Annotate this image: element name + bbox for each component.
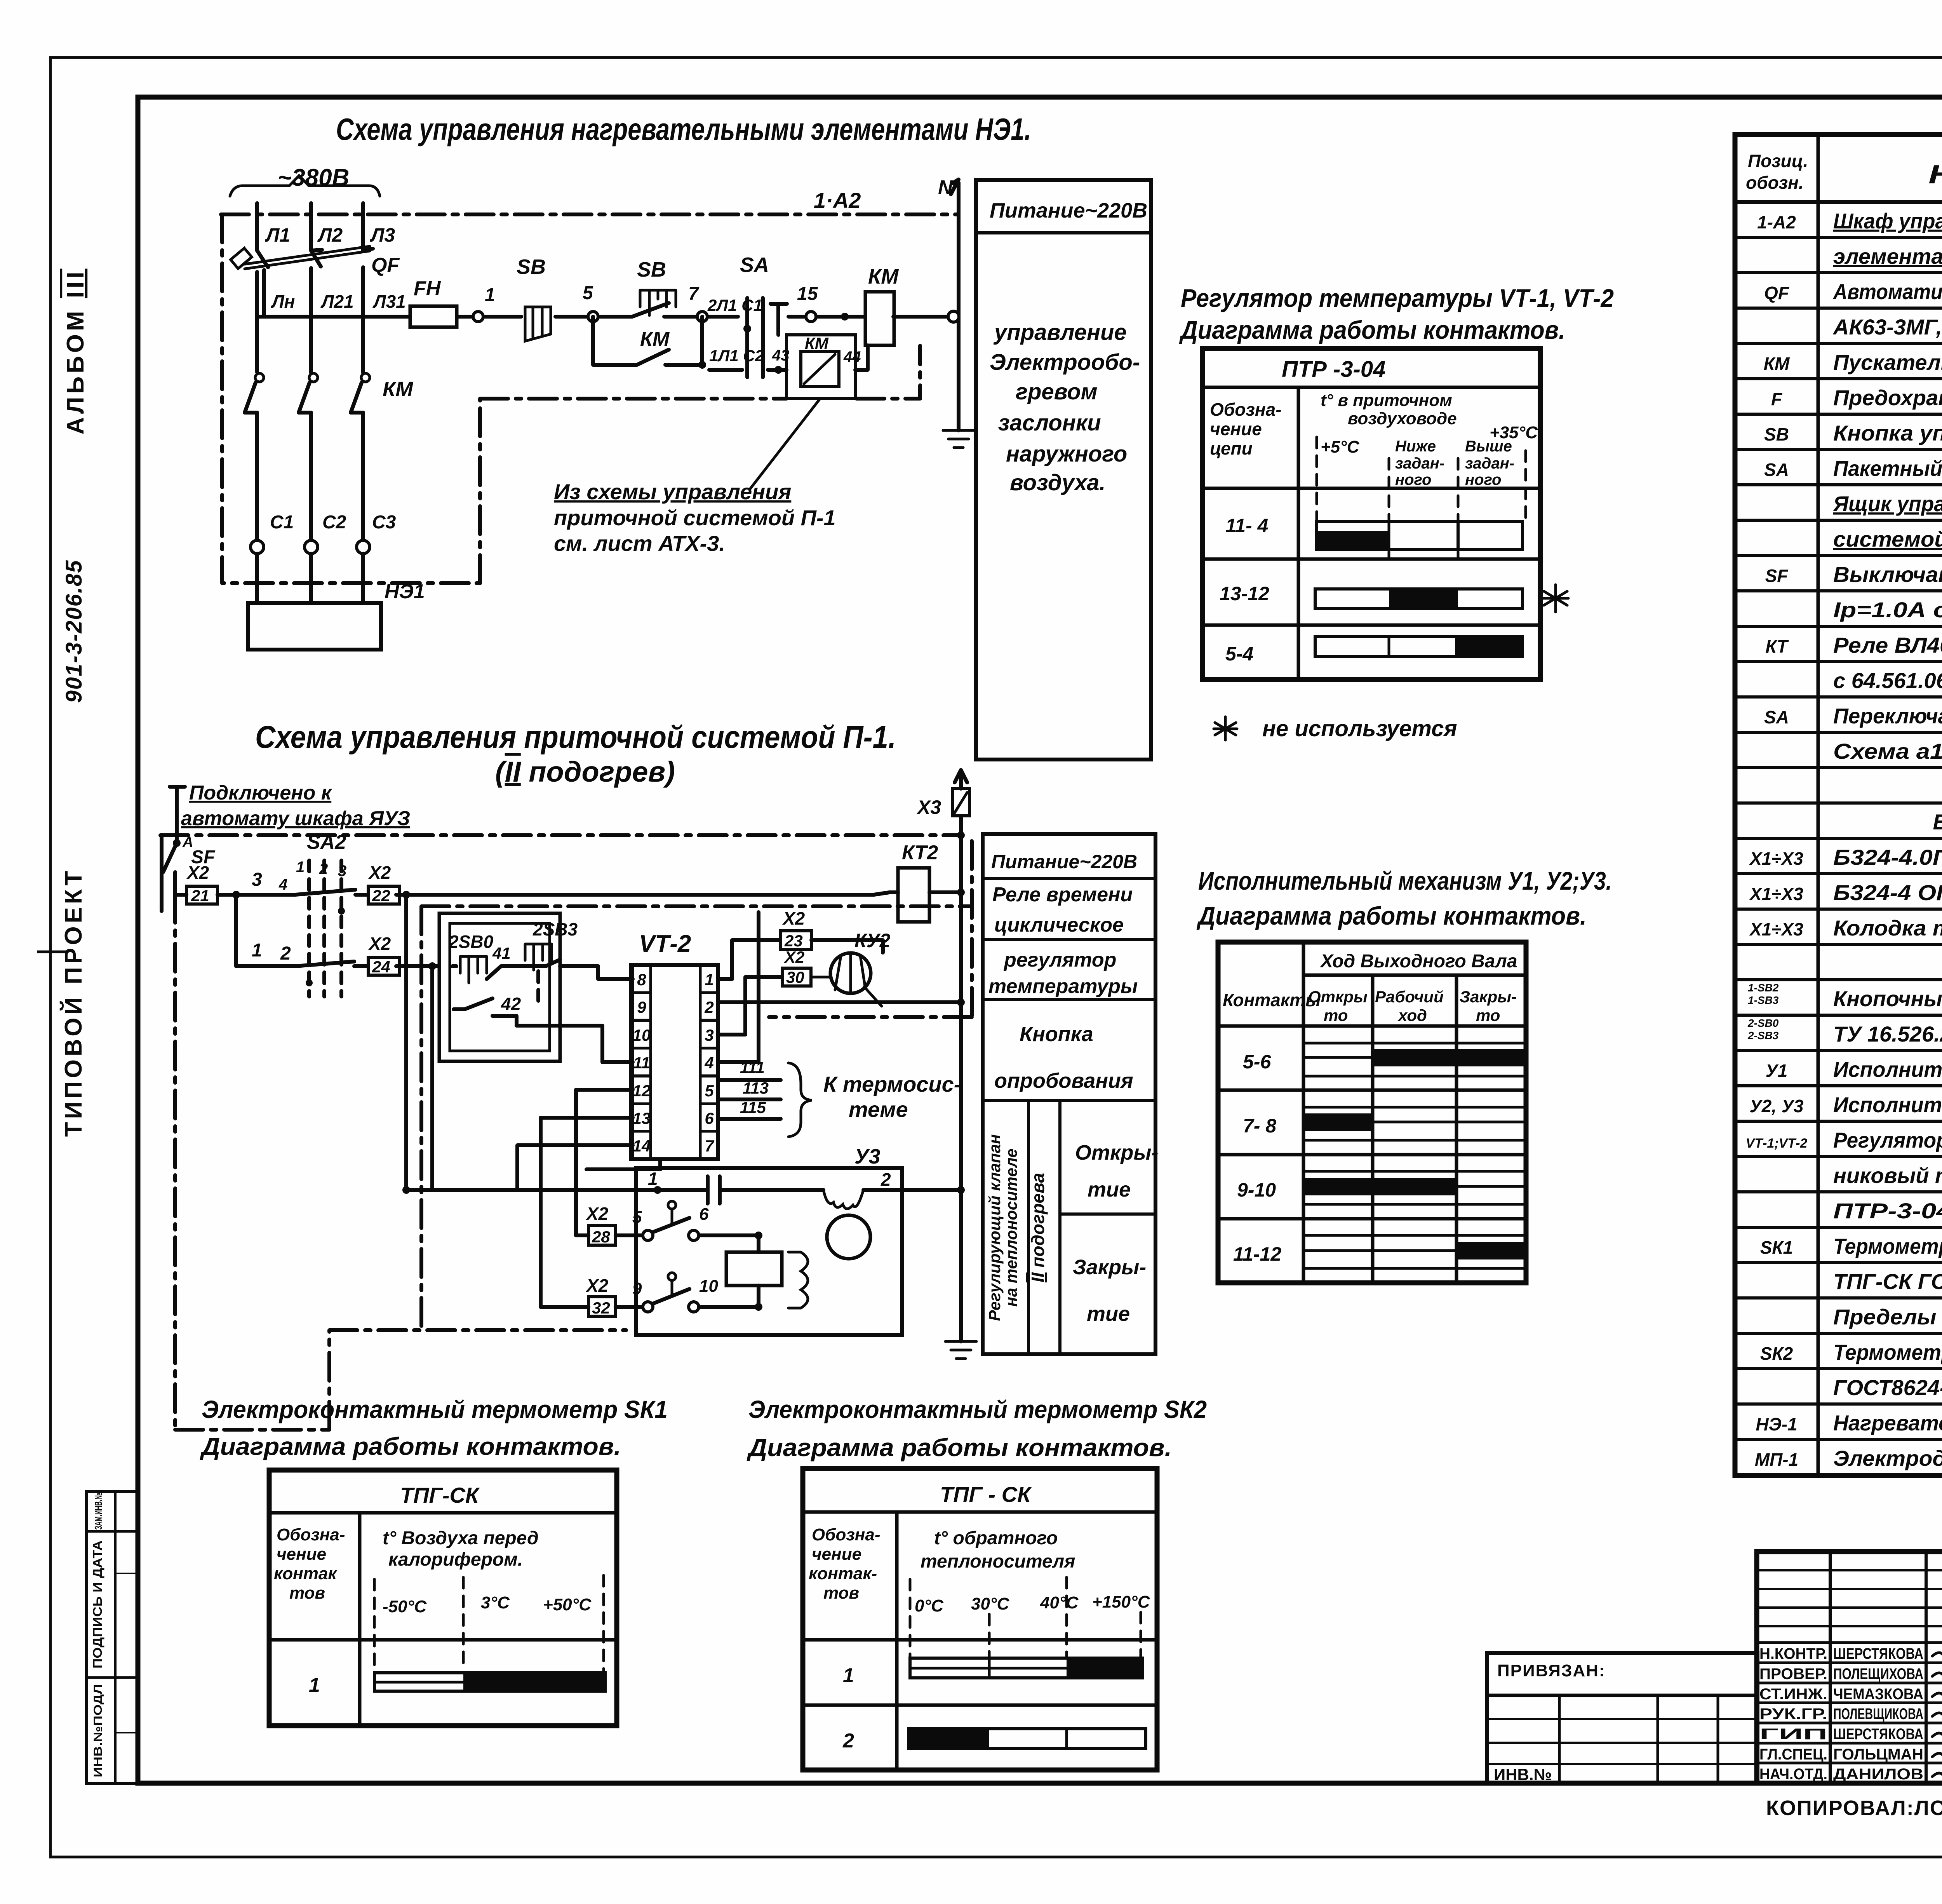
svg-text:КМ: КМ — [805, 334, 829, 352]
svg-text:1: 1 — [296, 859, 305, 876]
svg-text:Б324-4 ОП25-В/В У3-10 ТУ16-526: Б324-4 ОП25-В/В У3-10 ТУ16-526.463-79 — [1833, 880, 1942, 905]
svg-text:никовый трехпозиционный: никовый трехпозиционный — [1833, 1163, 1942, 1188]
svg-text:1: 1 — [648, 1169, 658, 1189]
svg-text:КМ: КМ — [640, 328, 670, 350]
contactor KM main contacts — [257, 317, 363, 372]
svg-text:ТУ 16.526.217-78: ТУ 16.526.217-78 — [1833, 1022, 1942, 1046]
svg-text:цепи: цепи — [1210, 438, 1253, 458]
svg-text:опробования: опробования — [994, 1069, 1133, 1092]
svg-text:чение: чение — [812, 1545, 861, 1564]
lower cell split — [1027, 1101, 1030, 1354]
SA2 contact marks row2 — [295, 962, 354, 966]
centering mark left — [37, 951, 66, 953]
svg-text:ход: ход — [1397, 1006, 1427, 1024]
svg-text:F: F — [1771, 389, 1783, 409]
button SB start blade — [632, 303, 669, 317]
svg-text:SВ: SВ — [1764, 424, 1789, 444]
svg-text:1: 1 — [252, 940, 262, 961]
button 2SB3 — [525, 944, 552, 970]
svg-text:Л3: Л3 — [370, 224, 395, 246]
svg-text:13-12: 13-12 — [1220, 583, 1269, 604]
row 1 bar — [910, 1658, 1142, 1678]
svg-text:+150°С: +150°С — [1092, 1592, 1150, 1611]
svg-text:9: 9 — [632, 1279, 642, 1298]
svg-text:задан-: задан- — [1465, 455, 1514, 472]
svg-text:Л1: Л1 — [265, 224, 290, 246]
svg-text:5: 5 — [705, 1082, 714, 1100]
svg-text:ПТР-3-04 ТУ2503-346-70.: ПТР-3-04 ТУ2503-346-70. — [1833, 1198, 1942, 1223]
svg-text:МП-1: МП-1 — [1755, 1449, 1798, 1470]
svg-text:циклическое: циклическое — [994, 914, 1124, 936]
svg-text:-50°С: -50°С — [383, 1597, 427, 1616]
svg-text:ПОДПИСЬ И ДАТА: ПОДПИСЬ И ДАТА — [90, 1540, 104, 1669]
svg-text:ШЕРСТЯКОВА: ШЕРСТЯКОВА — [1833, 1645, 1923, 1662]
svg-text:Б324-4.0П25-В/В У3-5 ТУ16-526.: Б324-4.0П25-В/В У3-5 ТУ16-526.462-79 — [1833, 845, 1942, 869]
svg-text:наружного: наружного — [1006, 441, 1127, 467]
svg-text:Блоки зажимов.: Блоки зажимов. — [1933, 810, 1942, 834]
svg-text:Электродвигатель 4А132S6; 5,5: Электродвигатель 4А132S6; 5,5 кВт. — [1833, 1446, 1942, 1470]
svg-text:QF: QF — [371, 254, 400, 277]
contact 5-6 — [616, 1233, 642, 1237]
svg-text:Диаграмма работы контактов.: Диаграмма работы контактов. — [1179, 315, 1565, 344]
staircase wires pins 12-14 — [517, 1090, 633, 1307]
svg-text:1: 1 — [843, 1664, 854, 1687]
table A frame — [1202, 348, 1540, 679]
svg-text:С1: С1 — [270, 512, 294, 533]
svg-text:ПТР -3-04: ПТР -3-04 — [1282, 357, 1385, 382]
svg-text:15: 15 — [797, 284, 818, 304]
svg-text:ТПГ - СК: ТПГ - СК — [940, 1482, 1032, 1507]
junction before coil — [841, 313, 849, 321]
svg-text:НЭ-1: НЭ-1 — [1756, 1414, 1797, 1434]
svg-text:тие: тие — [1088, 1178, 1131, 1201]
svg-text:Нагревательные элементы N=3,6: Нагревательные элементы N=3,6 кВт. — [1833, 1411, 1942, 1435]
svg-text:2SВ3: 2SВ3 — [532, 919, 578, 939]
thermal relay КМ dashed box — [787, 335, 855, 399]
svg-text:КОПИРОВАЛ:ЛОГИНОВА: КОПИРОВАЛ:ЛОГИНОВА — [1766, 1796, 1942, 1820]
node 1 — [473, 312, 483, 322]
X2-28 feed wire — [576, 1233, 588, 1237]
node N arrow — [951, 179, 959, 214]
cabinet dash-dot boundary — [222, 214, 920, 583]
svg-text:3: 3 — [705, 1026, 713, 1044]
svg-text:Обозна-: Обозна- — [812, 1525, 881, 1544]
svg-text:Н.КОНТР.: Н.КОНТР. — [1759, 1645, 1827, 1662]
svg-text:Термометр манометрический ТПГ-: Термометр манометрический ТПГ-СК — [1833, 1340, 1942, 1364]
svg-text:Питание~220В: Питание~220В — [990, 199, 1147, 222]
svg-text:7: 7 — [688, 284, 700, 304]
svg-text:1Л1 С2: 1Л1 С2 — [709, 347, 764, 365]
svg-text:Кнопка управления КСГ 1-12: Кнопка управления КСГ 1-12 — [1833, 421, 1942, 445]
svg-text:Закры-: Закры- — [1460, 988, 1517, 1006]
svg-text:5-6: 5-6 — [1243, 1051, 1271, 1073]
X3 grounded vertical — [959, 816, 963, 1341]
svg-text:SВ: SВ — [637, 258, 666, 281]
dashed scale lines — [910, 1577, 1141, 1658]
chip VT-2 body — [631, 965, 718, 1159]
svg-text:Диаграмма работы контактов.: Диаграмма работы контактов. — [1196, 901, 1587, 930]
svg-text:Х1÷Х3: Х1÷Х3 — [1749, 884, 1803, 904]
svg-text:7- 8: 7- 8 — [1243, 1115, 1276, 1137]
svg-text:Х2: Х2 — [368, 934, 391, 954]
svg-text:Предохранитель ПРС-6-П: Предохранитель ПРС-6-П — [1833, 385, 1942, 410]
inductor bumps — [823, 1190, 863, 1209]
svg-text:СТ.ИНЖ.: СТ.ИНЖ. — [1759, 1686, 1827, 1703]
wire phase stub Л1 — [255, 203, 259, 251]
wire lower aux row — [709, 345, 868, 370]
svg-text:КМ: КМ — [383, 378, 413, 401]
svg-text:КТ2: КТ2 — [902, 841, 938, 864]
right info box: Питание — [976, 180, 1151, 760]
svg-text:Ход Выходного Вала: Ход Выходного Вала — [1319, 951, 1517, 972]
wire contact to relay — [699, 1235, 759, 1252]
contact 42 — [454, 998, 560, 1026]
node 15 — [806, 312, 816, 322]
svg-text:АЛЬБОМ III: АЛЬБОМ III — [62, 269, 89, 435]
svg-text:ГОСТ8624-71 Пределы показаний: ГОСТ8624-71 Пределы показаний 0÷150 °С — [1833, 1375, 1942, 1400]
svg-text:заслонки: заслонки — [998, 410, 1101, 435]
switch SA bars — [747, 298, 787, 377]
svg-text:2: 2 — [842, 1730, 854, 1752]
wires pins 6-7 to thermosystem — [718, 1080, 781, 1119]
svg-text:Контакты: Контакты — [1223, 990, 1321, 1010]
button SB stop — [525, 307, 551, 341]
wire X2-23 to valve — [811, 940, 883, 953]
svg-text:2Л1 С1: 2Л1 С1 — [707, 296, 762, 314]
svg-text:Пределы показаний -50÷+50 °С: Пределы показаний -50÷+50 °С — [1833, 1305, 1942, 1329]
feeder vertical dash-dot — [173, 895, 177, 1430]
svg-text:задан-: задан- — [1395, 455, 1444, 472]
svg-text:тие: тие — [1087, 1302, 1130, 1326]
svg-text:Схема а102 ТУ16-526.047-74: Схема а102 ТУ16-526.047-74 — [1833, 739, 1942, 763]
svg-text:Лн: Лн — [271, 291, 295, 312]
svg-text:VТ-2: VТ-2 — [639, 930, 691, 957]
svg-text:Л31: Л31 — [372, 291, 406, 312]
svg-text:Ниже: Ниже — [1395, 438, 1436, 455]
parts table header rule — [1735, 200, 1942, 204]
svg-text:3: 3 — [252, 869, 262, 890]
button SB start actuator — [640, 290, 676, 315]
table C frame — [269, 1470, 617, 1726]
wire KM aux branch — [593, 317, 702, 365]
note не используется — [1214, 717, 1237, 740]
svg-text:2: 2 — [704, 998, 713, 1016]
svg-text:12: 12 — [633, 1082, 651, 1100]
row 13-12 bar — [1315, 589, 1523, 608]
svg-text:Пакетный переключатель ПММ3-10: Пакетный переключатель ПММ3-10/Н2 — [1833, 456, 1942, 481]
svg-text:то: то — [1324, 1006, 1348, 1024]
svg-text:23: 23 — [784, 932, 803, 950]
svg-text:SК1: SК1 — [1760, 1237, 1793, 1258]
wire pin2 long — [718, 1000, 961, 1004]
svg-text:10: 10 — [633, 1026, 651, 1044]
svg-text:воздуховоде: воздуховоде — [1348, 409, 1457, 428]
svg-text:У3: У3 — [854, 1145, 881, 1168]
svg-text:регулятор: регулятор — [1003, 949, 1116, 971]
svg-text:11-12: 11-12 — [1233, 1243, 1281, 1265]
button 2SB0 — [460, 956, 487, 983]
relay box У3 — [726, 1252, 782, 1286]
svg-text:Исполнительный механизм заслон: Исполнительный механизм заслонки — [1833, 1057, 1942, 1082]
junction after X2-22 — [402, 891, 410, 899]
svg-text:21: 21 — [191, 887, 209, 905]
svg-text:Схема управления приточной сис: Схема управления приточной системой П-1. — [255, 719, 896, 755]
svg-text:t° обратного: t° обратного — [934, 1528, 1058, 1549]
svg-text:Х2: Х2 — [585, 1204, 609, 1224]
svg-text:Л21: Л21 — [320, 291, 354, 312]
svg-text:Автоматический выключатель: Автоматический выключатель — [1832, 279, 1942, 304]
svg-text:901-3-206.85: 901-3-206.85 — [61, 559, 87, 703]
svg-text:элементами ШУ5102-03В2К: элементами ШУ5102-03В2К — [1833, 244, 1942, 268]
svg-text:5: 5 — [632, 1208, 642, 1227]
svg-text:К термосис-: К термосис- — [823, 1072, 961, 1096]
svg-text:У1: У1 — [1766, 1061, 1788, 1081]
svg-text:2: 2 — [280, 943, 291, 964]
svg-text:Выше: Выше — [1465, 438, 1512, 455]
svg-text:КМ: КМ — [1764, 354, 1790, 374]
svg-text:Х3: Х3 — [916, 796, 941, 818]
SA junction dots — [743, 325, 751, 333]
svg-text:115: 115 — [740, 1098, 766, 1117]
svg-text:Х2: Х2 — [186, 862, 209, 883]
svg-text:Электроконтактный термометр SК: Электроконтактный термометр SК2 — [748, 1395, 1207, 1423]
svg-text:контак: контак — [274, 1564, 338, 1583]
svg-text:+50°С: +50°С — [543, 1595, 592, 1614]
svg-text:40°С: 40°С — [1040, 1593, 1079, 1612]
svg-text:Х1÷Х3: Х1÷Х3 — [1749, 919, 1803, 939]
svg-text:1-SВ2: 1-SВ2 — [1748, 982, 1779, 994]
table D frame — [803, 1469, 1157, 1770]
ground — [943, 430, 974, 448]
svg-text:Диаграмма работы контактов.: Диаграмма работы контактов. — [200, 1432, 621, 1460]
node 5 — [588, 312, 598, 322]
svg-text:9: 9 — [637, 998, 646, 1016]
svg-text:10: 10 — [699, 1277, 718, 1296]
svg-text:1: 1 — [309, 1674, 320, 1697]
junction node7 lower — [698, 361, 706, 369]
svg-text:ИНВ.№ПОДЛ: ИНВ.№ПОДЛ — [92, 1684, 104, 1777]
wire pin3 to X2-30 — [718, 977, 782, 1035]
svg-text:5: 5 — [583, 283, 593, 303]
svg-text:КТ: КТ — [1766, 636, 1789, 657]
svg-text:ного: ного — [1465, 471, 1501, 488]
svg-text:SF: SF — [1765, 566, 1789, 586]
row2 drop — [236, 895, 259, 966]
row 1 bar — [374, 1673, 605, 1691]
svg-text:Пускатель магнитный ПМЕ-112 Iн: Пускатель магнитный ПМЕ-112 Iн.э=8А — [1833, 350, 1942, 375]
ПРИВЯЗАН table — [1487, 1653, 1758, 1784]
svg-text:11- 4: 11- 4 — [1225, 515, 1268, 537]
parts table frame — [1735, 134, 1942, 1475]
switch SA2 dashed poles — [309, 861, 341, 996]
svg-text:42: 42 — [501, 994, 521, 1014]
svg-text:обозн.: обозн. — [1746, 172, 1804, 193]
У3 top wire with capacitor — [406, 1188, 961, 1192]
svg-text:Обозна-: Обозна- — [277, 1525, 345, 1544]
svg-text:КМ: КМ — [868, 265, 899, 288]
svg-text:контак-: контак- — [809, 1564, 877, 1583]
X2-32 feed wire — [541, 1305, 588, 1309]
svg-text:приточной системой П-1: приточной системой П-1 — [554, 505, 836, 530]
switch SF — [162, 787, 185, 911]
stamp frame — [1757, 1552, 1942, 1783]
svg-text:SА: SА — [1764, 460, 1789, 480]
svg-text:РУК.ГР.: РУК.ГР. — [1759, 1705, 1827, 1723]
svg-text:5-4: 5-4 — [1225, 643, 1253, 665]
svg-text:24: 24 — [372, 958, 390, 976]
svg-text:II подогрева: II подогрева — [1028, 1173, 1048, 1282]
svg-text:Исполнительный механизм клапан: Исполнительный механизм клапана — [1833, 1092, 1942, 1117]
svg-text:теплоносителя: теплоносителя — [921, 1551, 1075, 1572]
svg-text:чение: чение — [277, 1545, 326, 1564]
thermal relay inner rect — [801, 352, 839, 387]
svg-text:Обозна-: Обозна- — [1210, 399, 1282, 420]
row 2 bar — [908, 1729, 1146, 1749]
svg-text:113: 113 — [743, 1079, 769, 1097]
junction row2 — [428, 962, 436, 970]
breaker QF handle — [231, 248, 252, 269]
svg-text:13: 13 — [633, 1109, 651, 1127]
capacitor — [708, 1176, 720, 1204]
svg-text:Переключатель ПКУ3-12С-У3: Переключатель ПКУ3-12С-У3 — [1833, 704, 1942, 728]
svg-text:t° Воздуха перед: t° Воздуха перед — [383, 1528, 539, 1549]
contact 9-10 — [616, 1305, 642, 1309]
breaker QF blades — [257, 249, 373, 267]
dashed enclosure around chip area — [421, 841, 972, 1330]
svg-text:11: 11 — [633, 1054, 650, 1072]
breaker QF crossbar — [245, 246, 370, 269]
svg-text:Ящик управления приточной: Ящик управления приточной — [1832, 491, 1942, 516]
button post box inner — [450, 923, 550, 1051]
svg-text:6: 6 — [699, 1205, 709, 1224]
leader line — [750, 399, 820, 490]
svg-text:Х2: Х2 — [782, 908, 805, 928]
svg-text:Реле времени: Реле времени — [992, 883, 1133, 906]
svg-text:калорифером.: калорифером. — [388, 1549, 523, 1570]
svg-text:2SВ0: 2SВ0 — [448, 932, 493, 952]
svg-text:Регулирующий клапан: Регулирующий клапан — [985, 1134, 1004, 1321]
svg-text:Л2: Л2 — [317, 224, 343, 246]
row2 wire — [259, 964, 439, 968]
svg-text:N: N — [938, 176, 953, 199]
terminals C1 C2 C3 — [251, 540, 264, 554]
svg-text:ПРИВЯЗАН:: ПРИВЯЗАН: — [1497, 1661, 1606, 1680]
svg-text:1-А2: 1-А2 — [1757, 212, 1796, 232]
node on N line — [948, 311, 959, 322]
svg-text:чение: чение — [1210, 419, 1262, 439]
terminal X2-23 — [780, 931, 811, 949]
svg-text:SА: SА — [740, 253, 769, 277]
svg-text:22: 22 — [372, 887, 390, 905]
terminal X3 — [952, 789, 969, 816]
row 11-4 bar — [1317, 521, 1523, 550]
actuator У3 box — [636, 1168, 902, 1335]
svg-text:1-SВ3: 1-SВ3 — [1748, 994, 1779, 1006]
dashed scale lines — [374, 1575, 604, 1671]
heater НЭ1 box — [248, 603, 381, 650]
svg-text:на теплоносителе: на теплоносителе — [1002, 1148, 1020, 1306]
svg-text:Подключено к: Подключено к — [189, 782, 332, 804]
table B frame — [1218, 942, 1526, 1283]
svg-text:ИНВ.№: ИНВ.№ — [1494, 1765, 1552, 1784]
chip VT-2 pin boxes — [633, 965, 651, 993]
svg-text:Х2: Х2 — [585, 1275, 609, 1296]
wire phase stub Л2 — [309, 203, 313, 251]
junction row1 — [232, 891, 240, 899]
svg-text:(II подогрев): (II подогрев) — [495, 756, 675, 788]
svg-text:SА2: SА2 — [307, 831, 346, 854]
svg-text:ГОЛЬЦМАН: ГОЛЬЦМАН — [1833, 1746, 1923, 1763]
vertical from row2 — [430, 966, 434, 1190]
svg-text:НАЧ.ОТД.: НАЧ.ОТД. — [1759, 1766, 1827, 1783]
svg-text:ТИПОВОЙ ПРОЕКТ: ТИПОВОЙ ПРОЕКТ — [60, 868, 87, 1137]
svg-text:1: 1 — [485, 285, 495, 305]
wire 42 to pin11 — [560, 1026, 633, 1062]
svg-text:с 64.561.062 ТО: с 64.561.062 ТО — [1833, 668, 1942, 693]
left stamp strip — [87, 1491, 138, 1784]
wire KT2 to X3 vertical — [929, 890, 961, 894]
svg-text:температуры: температуры — [988, 975, 1138, 998]
wire 10 to relay — [699, 1305, 759, 1309]
wire pin4 up — [718, 912, 759, 1062]
svg-text:7: 7 — [705, 1137, 714, 1155]
svg-text:ТПГ-СК ГОСТ8624-71: ТПГ-СК ГОСТ8624-71 — [1833, 1269, 1942, 1294]
wire phase drops below QF — [257, 267, 363, 373]
svg-text:ГИП: ГИП — [1759, 1726, 1827, 1743]
svg-text:14: 14 — [633, 1137, 651, 1155]
svg-text:3°С: 3°С — [481, 1593, 510, 1612]
dashed scale lines — [1317, 437, 1526, 559]
svg-text:t° в приточном: t° в приточном — [1321, 391, 1452, 410]
svg-text:ШЕРСТЯКОВА: ШЕРСТЯКОВА — [1833, 1726, 1923, 1743]
svg-text:Х1÷Х3: Х1÷Х3 — [1749, 848, 1803, 869]
lower dash-dot boundary — [175, 1330, 626, 1430]
spring arcs — [788, 1252, 808, 1308]
svg-text:Х2: Х2 — [368, 862, 391, 883]
node 7 — [697, 312, 707, 322]
svg-text:Кнопка: Кнопка — [1020, 1023, 1093, 1046]
brace — [788, 1063, 812, 1137]
svg-text:управление: управление — [993, 320, 1127, 345]
svg-text:2-SВ3: 2-SВ3 — [1747, 1030, 1779, 1042]
svg-text:ного: ного — [1395, 471, 1431, 488]
svg-text:SК2: SК2 — [1760, 1343, 1793, 1364]
svg-text:Термометр манометрический: Термометр манометрический — [1833, 1234, 1942, 1258]
svg-text:АК63-3МГ, Iн.расч.=10А: АК63-3МГ, Iн.расч.=10А — [1832, 315, 1942, 339]
svg-text:системой П-1 (ЯОУ5101-2374-Ухл: системой П-1 (ЯОУ5101-2374-УхлЧ) — [1833, 527, 1942, 551]
svg-text:43: 43 — [772, 347, 790, 364]
svg-text:тов: тов — [823, 1583, 859, 1603]
ground symbol 2 — [945, 1341, 976, 1359]
svg-text:гревом: гревом — [1016, 379, 1098, 404]
svg-text:см. лист АТХ-3.: см. лист АТХ-3. — [554, 531, 725, 556]
svg-text:1: 1 — [705, 970, 713, 989]
long vertical from row1 — [404, 895, 408, 1190]
svg-text:КУ2: КУ2 — [854, 930, 891, 951]
svg-text:Кнопочный пост управления ПКЕ-: Кнопочный пост управления ПКЕ-722-2У3 — [1833, 986, 1942, 1011]
svg-text:3: 3 — [338, 862, 346, 880]
main control wire — [257, 315, 950, 319]
svg-text:0°С: 0°С — [915, 1596, 944, 1615]
bus 1-A2 dash-dot top — [221, 213, 959, 216]
svg-text:воздуха.: воздуха. — [1010, 470, 1106, 495]
fuse FH — [410, 306, 457, 327]
terminal X2-30 — [782, 968, 811, 986]
SA2 contact marks row1 — [295, 890, 355, 895]
svg-text:Откры: Откры — [1308, 988, 1368, 1006]
svg-text:+5°С: +5°С — [1321, 437, 1360, 456]
svg-text:111: 111 — [740, 1058, 765, 1077]
